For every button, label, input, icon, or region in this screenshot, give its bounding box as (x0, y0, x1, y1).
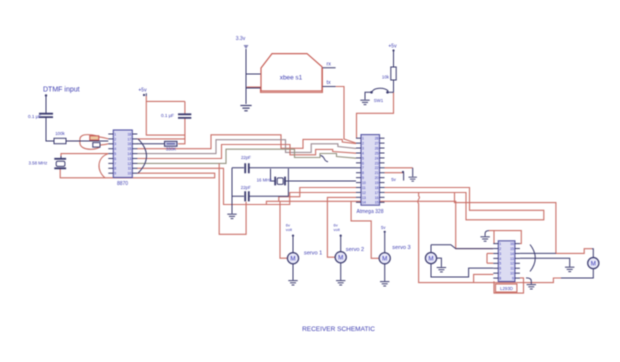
pin servo1 (292, 235, 294, 237)
svg-text:0.1 µF: 0.1 µF (28, 114, 41, 119)
IC U3 L293D body (498, 241, 515, 282)
resistor R5 10k (391, 67, 396, 80)
svg-text:2: 2 (499, 247, 501, 251)
svg-text:11: 11 (128, 167, 132, 171)
svg-text:M: M (428, 255, 433, 262)
svg-text:10: 10 (128, 172, 132, 176)
wire xtal net bottom (232, 169, 288, 197)
svg-text:16: 16 (375, 196, 379, 200)
svg-text:M: M (382, 256, 387, 263)
switch SW1 pins (370, 91, 373, 94)
resistor R1 100k (54, 138, 66, 143)
wire 8870 right arc (138, 139, 147, 173)
svg-text:+5v: +5v (138, 87, 147, 93)
svg-text:3: 3 (499, 252, 501, 256)
svg-text:17: 17 (128, 137, 132, 141)
svg-text:8: 8 (114, 167, 116, 171)
svg-text:12: 12 (128, 162, 132, 166)
wire L293D left bracket (487, 253, 493, 263)
svg-text:xbee s1: xbee s1 (280, 75, 303, 82)
svg-text:14: 14 (362, 201, 366, 205)
svg-text:17: 17 (375, 191, 379, 195)
wire L293D gnd hooks (485, 231, 489, 237)
motor right DC motor (588, 258, 599, 269)
svg-text:12: 12 (362, 191, 366, 195)
wire xbee left vertical (245, 49, 247, 104)
svg-text:3.58 MHz: 3.58 MHz (29, 161, 48, 166)
svg-text:3.3v: 3.3v (236, 36, 246, 42)
wire squiggle pin5 (321, 156, 329, 162)
ground xbee (240, 106, 251, 111)
wire L293D pin14 to motor (520, 252, 556, 254)
pin servo2 (340, 235, 342, 237)
wire rx net (247, 68, 323, 93)
svg-text:7: 7 (114, 162, 116, 166)
svg-text:3: 3 (362, 146, 364, 150)
pin DTMF input (45, 94, 47, 96)
svg-text:27: 27 (375, 142, 379, 146)
motor servo2 M (335, 252, 346, 263)
svg-text:6: 6 (114, 157, 116, 161)
svg-text:M: M (591, 260, 596, 267)
wire arc 8870 left (99, 154, 108, 178)
wire pin7 stub (474, 274, 494, 282)
svg-text:14: 14 (510, 252, 514, 256)
svg-text:5: 5 (114, 152, 116, 156)
wire crystal3 feed (61, 154, 108, 159)
motor servo1 M (287, 253, 298, 264)
wire gain res right ends (98, 137, 108, 139)
svg-text:9: 9 (114, 172, 116, 176)
svg-text:4: 4 (499, 257, 501, 261)
pin servo3 (384, 231, 386, 233)
ground servo1 (288, 281, 297, 285)
wire 10k vertical (393, 50, 395, 93)
wire cap gnd vertical (231, 168, 233, 214)
svg-text:4: 4 (114, 147, 116, 151)
svg-text:6: 6 (499, 267, 501, 271)
xbee s1 module (261, 54, 322, 91)
IC U1 8870 pins (108, 134, 137, 173)
svg-text:22pF: 22pF (241, 185, 251, 190)
svg-text:8870: 8870 (117, 181, 128, 187)
ground atmega aux (408, 177, 416, 181)
svg-text:19: 19 (375, 181, 379, 185)
svg-text:26: 26 (375, 146, 379, 150)
wire +5v long vertical (146, 96, 185, 135)
pin +5v C2 (143, 94, 145, 96)
wire xtal to atmega pin10 (288, 180, 356, 182)
ground L293D topleft (480, 237, 489, 241)
svg-text:6: 6 (362, 161, 364, 165)
wire servo1 (280, 201, 288, 258)
svg-text:15: 15 (510, 247, 514, 251)
svg-text:11: 11 (362, 186, 366, 190)
svg-text:13: 13 (362, 196, 366, 200)
svg-text:9: 9 (512, 277, 514, 281)
ground cap 22pF (227, 214, 236, 218)
svg-text:M: M (338, 254, 343, 261)
pin xbee left pins (246, 74, 261, 88)
wire left motor top (431, 245, 493, 253)
svg-text:24: 24 (375, 156, 379, 160)
svg-text:7: 7 (499, 272, 501, 276)
wire left motor bottom (431, 264, 493, 277)
wire SW1-reset (357, 92, 394, 138)
svg-text:0.1 µF: 0.1 µF (161, 113, 174, 118)
svg-text:+5v: +5v (388, 44, 397, 50)
svg-text:7: 7 (362, 166, 364, 170)
wire atmega aux stubs (385, 168, 413, 173)
resistor R4 330K (165, 141, 178, 146)
pin atmega 5v aux (403, 173, 405, 181)
wire +5v to cap2 (146, 101, 185, 143)
switch SW1 lever (372, 88, 388, 91)
IC U2 Atmega328 pins (356, 138, 385, 202)
wire v1 cap tee (219, 163, 246, 234)
svg-text:15: 15 (375, 201, 379, 205)
svg-text:1: 1 (362, 137, 364, 141)
wire 8870-servo bus v2 (137, 168, 356, 204)
motor servo3 M (379, 253, 390, 264)
IC U2 Atmega328 pin numbers (362, 137, 379, 205)
wire L293D pin13 to gnd (520, 258, 570, 266)
svg-text:8: 8 (362, 171, 364, 175)
svg-text:3: 3 (114, 142, 116, 146)
ground left motor (437, 268, 446, 272)
ground pin13 net (565, 267, 574, 271)
svg-text:23: 23 (375, 161, 379, 165)
resistor R2 (90, 136, 99, 140)
wire tx net (336, 87, 356, 144)
wire servo3 leads (384, 233, 386, 281)
capacitor C1 0.1uF (39, 114, 53, 117)
svg-text:L293D: L293D (500, 286, 513, 291)
capacitor C3 22pF (245, 163, 249, 173)
pin +5v SW (392, 49, 394, 51)
svg-text:16 MHz: 16 MHz (257, 178, 272, 183)
wire long bus y=201.3 (266, 201, 493, 248)
svg-text:4: 4 (362, 151, 364, 155)
svg-text:8: 8 (499, 277, 501, 281)
wire DTMF input vertical (45, 99, 47, 114)
svg-text:22pF: 22pF (241, 155, 251, 160)
crystal Y1 3.58MHz (54, 159, 66, 169)
svg-text:10: 10 (362, 181, 366, 185)
wire +5v st/gt (137, 138, 185, 140)
wire motor-top feed (455, 193, 593, 254)
IC U1 8870 body (113, 130, 132, 178)
wire L293D arc (530, 245, 535, 272)
wire input loop (80, 135, 90, 141)
wire right motor bottom (561, 269, 593, 278)
svg-text:21: 21 (375, 171, 379, 175)
svg-text:1: 1 (499, 242, 501, 246)
svg-text:100k: 100k (55, 131, 65, 136)
svg-text:servo 2: servo 2 (346, 247, 364, 253)
svg-text:22: 22 (375, 166, 379, 170)
svg-text:2: 2 (114, 137, 116, 141)
svg-text:330K: 330K (166, 147, 176, 152)
wire 8870-atmega s1 (137, 135, 356, 149)
ground L293D bottomright (527, 285, 536, 289)
wire left motor gnd (437, 258, 442, 267)
pin 3.3v (244, 45, 249, 49)
wire 8870-atmega s4 (137, 149, 356, 163)
svg-text:12: 12 (510, 262, 514, 266)
IC U3 L293D pin numbers (499, 242, 514, 281)
svg-text:9: 9 (362, 176, 364, 180)
svg-text:2: 2 (362, 142, 364, 146)
wire atmega pin11 left (279, 188, 356, 202)
wire 8870-atmega s2 (137, 140, 356, 154)
svg-text:11: 11 (510, 267, 514, 271)
svg-text:M: M (290, 255, 295, 262)
IC U1 8870 pin numbers (114, 132, 131, 175)
ground servo3 (380, 282, 389, 286)
wire motor-bottom C (418, 193, 561, 283)
wire 100k to loop and through to pin (66, 140, 108, 142)
svg-text:10k: 10k (382, 75, 390, 80)
wire 8870-atmega s3 (137, 145, 356, 159)
svg-text:10: 10 (510, 272, 514, 276)
svg-text:28: 28 (375, 137, 379, 141)
motor left DC motor (425, 253, 436, 264)
svg-text:14: 14 (128, 152, 132, 156)
svg-text:volt: volt (286, 227, 293, 232)
svg-text:18: 18 (128, 132, 132, 136)
capacitor C4 22pF (245, 191, 249, 201)
wire servo1 leads (292, 236, 294, 280)
svg-text:SW1: SW1 (374, 98, 384, 103)
wire A atmega-L293D (385, 188, 544, 220)
svg-text:5v: 5v (391, 177, 396, 182)
svg-text:volt: volt (334, 227, 341, 232)
wire right motor top stub (592, 249, 593, 258)
svg-text:25: 25 (375, 151, 379, 155)
svg-text:servo 3: servo 3 (392, 245, 410, 251)
IC U3 L293D pins (493, 244, 520, 279)
wire servo3 (351, 201, 378, 258)
pin xbee rx tx (322, 68, 336, 87)
svg-text:rx: rx (327, 62, 332, 68)
crystal Y2 16MHz (275, 177, 285, 186)
wire crystal3 stub (60, 156, 62, 159)
svg-text:13: 13 (128, 157, 132, 161)
wire servo2 (327, 197, 356, 257)
wire 330K left lead (137, 143, 164, 145)
svg-text:DTMF input: DTMF input (43, 87, 80, 94)
svg-text:13: 13 (510, 257, 514, 261)
svg-text:5: 5 (499, 262, 501, 266)
ground SW1 (360, 100, 369, 104)
pin atmega 5v dot (402, 171, 404, 173)
svg-text:Atmega 328: Atmega 328 (357, 209, 384, 215)
wire L293D bottom (494, 278, 524, 293)
svg-text:1: 1 (114, 132, 116, 136)
svg-text:5: 5 (362, 156, 364, 160)
wire crystal3 return (60, 168, 215, 178)
wire L293D top (489, 231, 521, 244)
ground servo2 (336, 281, 345, 285)
svg-text:tx: tx (327, 80, 331, 86)
svg-text:16: 16 (128, 142, 132, 146)
svg-text:15: 15 (128, 147, 132, 151)
svg-text:20: 20 (375, 176, 379, 180)
svg-text:RECEIVER SCHEMATIC: RECEIVER SCHEMATIC (302, 326, 375, 333)
capacitor C2 0.1uF (178, 114, 191, 118)
wire servo2 leads (340, 236, 342, 280)
svg-text:servo 1: servo 1 (304, 251, 322, 257)
IC U2 Atmega328 body (361, 135, 380, 206)
svg-text:18: 18 (375, 186, 379, 190)
svg-text:16: 16 (510, 242, 514, 246)
wire xtal net top (232, 168, 356, 181)
resistor R3 (93, 143, 100, 148)
